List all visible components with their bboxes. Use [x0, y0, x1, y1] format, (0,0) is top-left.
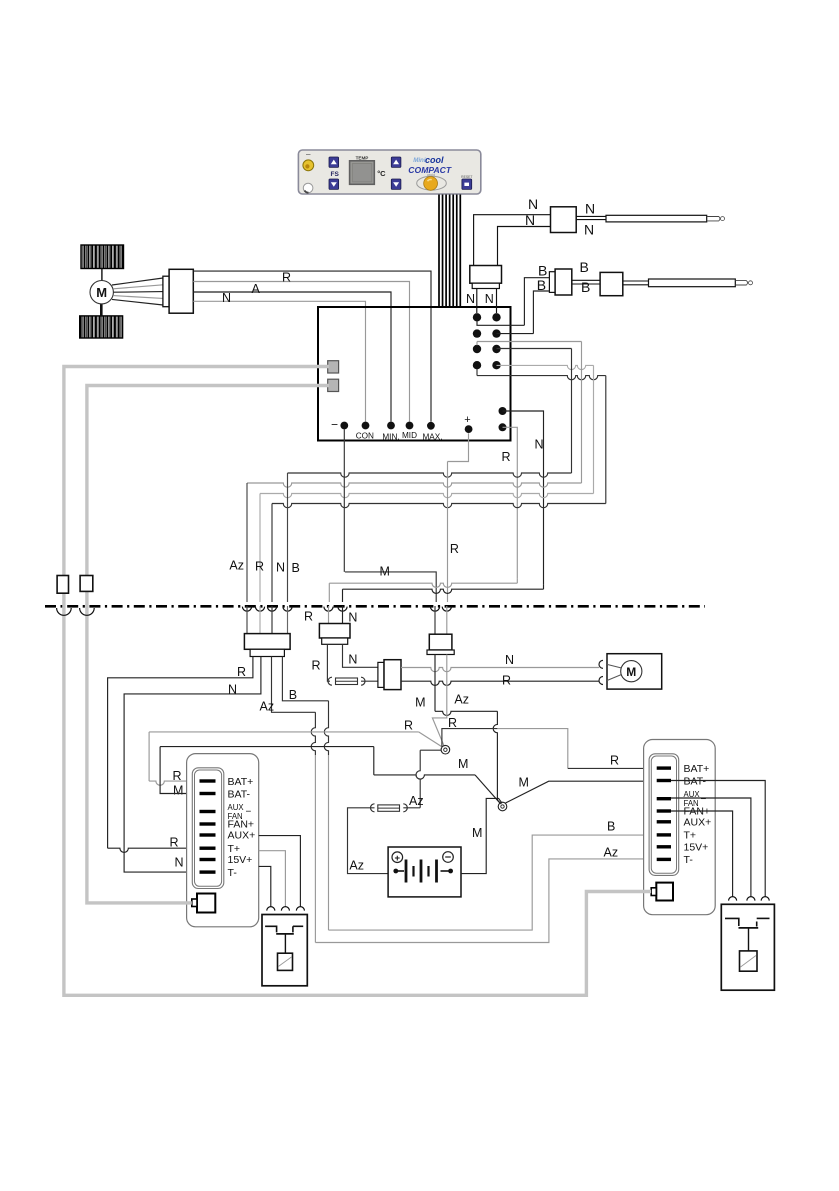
svg-text:+: + [395, 853, 401, 864]
wires right block to relay K2 [671, 781, 765, 897]
left terminal block [187, 754, 259, 927]
wire Az pump to ring1 [432, 655, 446, 747]
board pin R3 [492, 345, 500, 353]
svg-text:BAT+: BAT+ [228, 776, 254, 788]
relay K2 coil [740, 951, 758, 971]
connector pump [429, 634, 452, 650]
fan connector [163, 276, 169, 307]
wire R to pump motor [401, 681, 599, 685]
LED yellow [303, 160, 314, 171]
connector block Az/R/N/B [244, 634, 290, 650]
FS down button [329, 179, 339, 189]
N sensor probe [606, 215, 707, 222]
svg-text:Az: Az [409, 794, 424, 808]
wire down to bus3 [593, 365, 595, 493]
svg-text:MIN.: MIN. [382, 432, 399, 441]
svg-text:−: − [331, 418, 338, 432]
bulkhead gray 1 [57, 608, 72, 615]
board pin L2 [473, 329, 481, 337]
set up button [391, 157, 401, 167]
wire Az down [272, 657, 316, 713]
B sensor cable [572, 279, 600, 281]
fan motor M1 [90, 281, 113, 304]
connector pad 1 [328, 361, 339, 373]
svg-text:Mini: Mini [413, 157, 426, 164]
terminal bar 8 [200, 870, 216, 873]
svg-text:R: R [282, 271, 291, 285]
svg-text:MID: MID [402, 431, 417, 440]
control panel "Mini cool COMPACT" [298, 150, 480, 194]
wire N to pump motor [401, 668, 599, 672]
wire pin L4 [477, 376, 606, 380]
board pin R2 [492, 329, 500, 337]
svg-text:N: N [584, 222, 594, 238]
wire minus/M down [343, 429, 345, 572]
right block socket [656, 883, 673, 901]
svg-text:M: M [96, 285, 107, 300]
svg-text:N: N [222, 291, 231, 305]
ring terminal ring1 [441, 745, 450, 754]
svg-text:T-: T- [684, 854, 694, 866]
relay K2 [721, 904, 774, 990]
wire B down [287, 473, 289, 602]
svg-text:T+: T+ [684, 830, 697, 842]
svg-text:°C: °C [377, 169, 386, 178]
relay K2 pin [761, 897, 769, 901]
bulkhead connector at 272.0 [267, 607, 276, 612]
fan motor M1 shaft [101, 269, 103, 281]
FS up button [329, 157, 339, 167]
relay K2 pin [729, 897, 737, 901]
svg-text:R: R [255, 560, 264, 574]
bulkhead connector at 287.5 [283, 607, 292, 612]
connector block R/N [319, 624, 350, 639]
terminal MIN [387, 422, 395, 430]
svg-text:CON: CON [356, 432, 374, 441]
bus wire 3 [260, 494, 594, 498]
wire Az to right T- [315, 859, 656, 943]
thick gray wire 2 [87, 386, 329, 903]
wire Az down [246, 483, 248, 602]
svg-text:N: N [348, 610, 357, 624]
bulkhead connector at 435.0 [430, 607, 439, 612]
wire B right [533, 291, 549, 334]
wire R down [259, 494, 261, 603]
wire R gray from left block BAT+ to ring1 [149, 781, 199, 785]
svg-text:15V+: 15V+ [684, 841, 709, 853]
right terminal block [644, 740, 716, 915]
relay K1 pin [296, 907, 304, 911]
B sensor connector [549, 272, 555, 293]
svg-text:MAX.: MAX. [422, 432, 442, 441]
terminal plus [465, 425, 473, 433]
wire pin L1 to B left [477, 321, 524, 325]
terminal bar R3 [657, 797, 671, 800]
wire battery minus to ring2 [461, 798, 502, 873]
terminal MID [406, 422, 414, 430]
bus wire 2 [247, 483, 582, 487]
board pin L4 [473, 361, 481, 369]
terminal MAX [427, 422, 435, 430]
svg-text:B: B [580, 259, 589, 275]
terminal bar 1 [200, 779, 216, 782]
svg-text:M: M [415, 696, 425, 710]
svg-text:AUX+: AUX+ [228, 830, 256, 842]
svg-text:BAT-: BAT- [228, 788, 251, 800]
svg-text:BAT-: BAT- [684, 775, 707, 787]
N sensor cable pair [576, 215, 606, 217]
cup N [599, 660, 603, 668]
reset button [462, 179, 472, 189]
svg-text:R: R [450, 542, 459, 556]
ring terminal ring2 [498, 802, 507, 811]
svg-text:R: R [404, 719, 413, 733]
svg-text:world: world [427, 173, 435, 177]
terminal bar 7 [200, 858, 216, 861]
wire fan speed MAX [193, 271, 431, 422]
wire N down [271, 504, 273, 603]
N sensor connector to board [470, 266, 502, 284]
svg-text:N: N [525, 212, 535, 228]
wire N step [343, 589, 544, 593]
board pin N out [499, 407, 507, 415]
connector pad 2 [328, 379, 339, 391]
bulkhead connector at 342.5 [338, 607, 347, 612]
terminal CON [362, 422, 370, 430]
svg-text:N: N [228, 682, 237, 696]
wire M pump down [435, 711, 497, 715]
svg-text:B: B [607, 819, 615, 833]
wires left block to relay K1 [259, 836, 301, 907]
terminal bar 4 [200, 822, 216, 825]
bus wire 4 [272, 504, 606, 508]
wire plus down [448, 433, 469, 461]
fan blower top [81, 245, 124, 269]
bulkhead connector at 328.5 [324, 607, 333, 612]
bullet connector 2 [80, 576, 93, 592]
svg-text:Az: Az [349, 859, 364, 873]
wire pin R2 to B right [497, 333, 534, 335]
svg-text:R: R [610, 754, 619, 768]
svg-text:B: B [537, 277, 546, 293]
B sensor probe [649, 279, 736, 287]
svg-text:N: N [528, 196, 538, 212]
svg-text:AUX+: AUX+ [684, 816, 712, 828]
wire B left [524, 278, 549, 326]
svg-text:R: R [173, 769, 182, 783]
B probe tip [735, 281, 747, 285]
wire R step [329, 583, 517, 587]
svg-text:Az: Az [260, 700, 275, 714]
relay K2 pin [747, 897, 755, 901]
cup R [599, 677, 603, 685]
left block socket [197, 894, 215, 913]
svg-text:−: − [701, 794, 707, 805]
svg-text:TEMP: TEMP [356, 155, 369, 160]
svg-text:R: R [502, 450, 511, 464]
svg-text:cool: cool [425, 155, 444, 165]
svg-text:N: N [585, 200, 595, 216]
svg-text:R: R [311, 659, 320, 673]
wire R black ring1 to right block BAT+ [442, 729, 498, 747]
board pin R out [499, 423, 507, 431]
board pin R4 [492, 361, 500, 369]
bullet connector 1 [57, 576, 68, 594]
board pin L1 [473, 313, 481, 321]
svg-text:B: B [289, 688, 297, 702]
svg-text:T-: T- [228, 867, 238, 879]
svg-text:N: N [466, 292, 475, 306]
terminal bar 5 [200, 833, 216, 836]
relay K1 [262, 915, 307, 986]
svg-text:+: + [464, 414, 470, 426]
terminal bar R6 [657, 833, 671, 836]
fuse F1 [328, 677, 332, 685]
svg-text:M: M [380, 565, 390, 579]
svg-text:Az: Az [454, 693, 469, 707]
bulkhead connector at 247.0 [242, 607, 251, 612]
relay K1 pin [267, 907, 275, 911]
svg-text:N: N [505, 653, 514, 667]
svg-text:M: M [519, 776, 529, 790]
wire R from board [503, 427, 518, 579]
terminal bar R1 [657, 766, 671, 769]
svg-text:R: R [304, 609, 313, 623]
N probe tip [707, 217, 720, 221]
wire B to right T+ [329, 835, 657, 930]
motor leads to connector [112, 278, 163, 285]
svg-text:M: M [173, 783, 183, 797]
wire M ring2 to right block BAT- [506, 781, 657, 803]
board pin L3 [473, 345, 481, 353]
svg-text:R: R [502, 674, 511, 688]
control board [318, 307, 511, 441]
wire A (MIN) [193, 292, 391, 422]
N sensor connector box [551, 207, 577, 233]
bulkhead connector at 260.0 [255, 607, 264, 612]
terminal bar R5 [657, 820, 671, 823]
svg-text:N: N [175, 855, 184, 869]
wire Az ring1 to fuse2 to battery [420, 749, 441, 751]
svg-text:B: B [581, 279, 590, 295]
svg-text:N: N [485, 292, 494, 306]
svg-text:AUX: AUX [228, 803, 245, 812]
svg-text:Az: Az [604, 846, 619, 860]
globe logo [417, 176, 447, 190]
terminal bar 6 [200, 847, 216, 850]
connector X2 [378, 662, 384, 687]
wire pin R4 [497, 365, 594, 369]
thick gray wire 1 [64, 367, 651, 996]
wire down to bus4 [605, 376, 607, 504]
LED white [303, 183, 313, 193]
svg-text:B: B [292, 561, 300, 575]
B sensor body [600, 272, 623, 295]
svg-text:BAT+: BAT+ [684, 763, 710, 775]
battery [388, 847, 461, 897]
svg-text:R: R [448, 716, 457, 730]
wire R to fuse [327, 644, 330, 681]
svg-text:−: − [246, 807, 252, 818]
wire R (MID) [193, 282, 409, 422]
wire R to T+ left block [108, 657, 253, 849]
svg-text:15V+: 15V+ [228, 854, 253, 866]
wire N to T- left block [124, 657, 261, 873]
svg-text:N: N [276, 561, 285, 575]
bulkhead gray 2 [80, 608, 95, 615]
svg-text:RESET: RESET [461, 175, 472, 179]
relay K1 coil [278, 953, 293, 970]
terminal bar 2 [200, 792, 216, 795]
ribbon cable from panel to control board [438, 195, 440, 308]
terminal minus [340, 422, 348, 430]
svg-text:R: R [170, 835, 179, 849]
bulkhead connector at 446.8 [442, 607, 451, 612]
bus wire 1 [288, 473, 572, 477]
N sensor wires to board [474, 215, 551, 266]
svg-text:A: A [252, 282, 261, 296]
svg-text:N: N [535, 438, 544, 452]
terminal bar R4 [657, 809, 671, 812]
set down button [391, 179, 401, 189]
svg-text:T+: T+ [228, 843, 241, 855]
svg-text:M: M [626, 665, 636, 679]
svg-text:M: M [472, 826, 482, 840]
terminal bar 3 [200, 810, 216, 813]
svg-text:FS: FS [331, 171, 340, 178]
svg-text:Az: Az [229, 559, 244, 573]
fan blower bottom [80, 316, 123, 338]
wire pin L3 [477, 341, 582, 343]
fuse F2 [403, 804, 407, 812]
terminal bar R2 [657, 779, 671, 782]
partition dash-dot line [45, 605, 705, 608]
terminal bar R7 [657, 845, 671, 848]
relay K1 pin [281, 907, 289, 911]
svg-text:R: R [237, 665, 246, 679]
svg-text:M: M [458, 757, 468, 771]
wire B down [282, 657, 328, 701]
wire N from board [503, 411, 544, 585]
wire down to bus2 [581, 342, 583, 484]
wire N to connector [343, 644, 378, 667]
board pin R1 [492, 313, 500, 321]
wire down to bus1 [571, 349, 573, 474]
wire pin R3 [497, 348, 572, 350]
svg-text:N: N [348, 652, 357, 666]
wire N (CON) [193, 301, 365, 421]
terminal bar R8 [657, 858, 671, 861]
